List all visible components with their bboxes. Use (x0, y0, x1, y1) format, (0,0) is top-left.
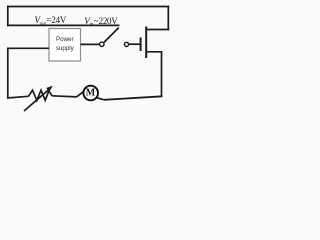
wire overhead bus (7, 24, 120, 26)
wire top-right vertical (167, 6, 169, 31)
switch S1 blade (104, 28, 119, 43)
svg-text:M: M (86, 88, 96, 99)
wire top-left vertical (7, 6, 9, 27)
wire bottom right segment (104, 96, 162, 100)
plug top prong wire (146, 29, 169, 31)
wire top horizontal (7, 6, 169, 8)
rheostat R1 zigzag (29, 90, 53, 100)
wire bottom-left vertical (7, 48, 9, 99)
switch S1 contact 2 (124, 42, 128, 46)
wire bottom-right vertical (161, 52, 163, 98)
svg-text:supply: supply (56, 45, 75, 52)
motor M1 (83, 86, 98, 101)
rheostat R1 arrow (24, 86, 53, 111)
motor left lead (77, 91, 85, 97)
wire switch to plug (129, 43, 141, 45)
svg-text:Vin ~ 220V: Vin ~ 220V (84, 16, 118, 28)
motor right lead (96, 98, 104, 100)
power supply box U1 (49, 29, 81, 62)
plug bottom prong wire (146, 51, 162, 53)
wire box left output (7, 47, 49, 49)
plug pin short bar (140, 38, 142, 52)
svg-text:Power: Power (56, 36, 74, 43)
switch S1 contact 1 (100, 42, 104, 46)
wire rheostat to motor (52, 96, 77, 97)
svg-text:Vout = 24V: Vout = 24V (35, 15, 67, 27)
wire bottom left segment (7, 96, 29, 98)
plug body long bar (145, 27, 147, 59)
wire box right to switch (81, 43, 100, 45)
